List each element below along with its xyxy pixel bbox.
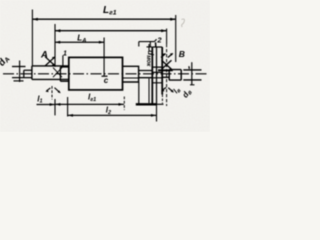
svg-text:c: c	[104, 76, 109, 85]
svg-text:1: 1	[63, 51, 67, 58]
svg-text:В: В	[179, 49, 185, 59]
svg-text:2: 2	[156, 35, 162, 44]
svg-text:A: A	[40, 50, 48, 61]
